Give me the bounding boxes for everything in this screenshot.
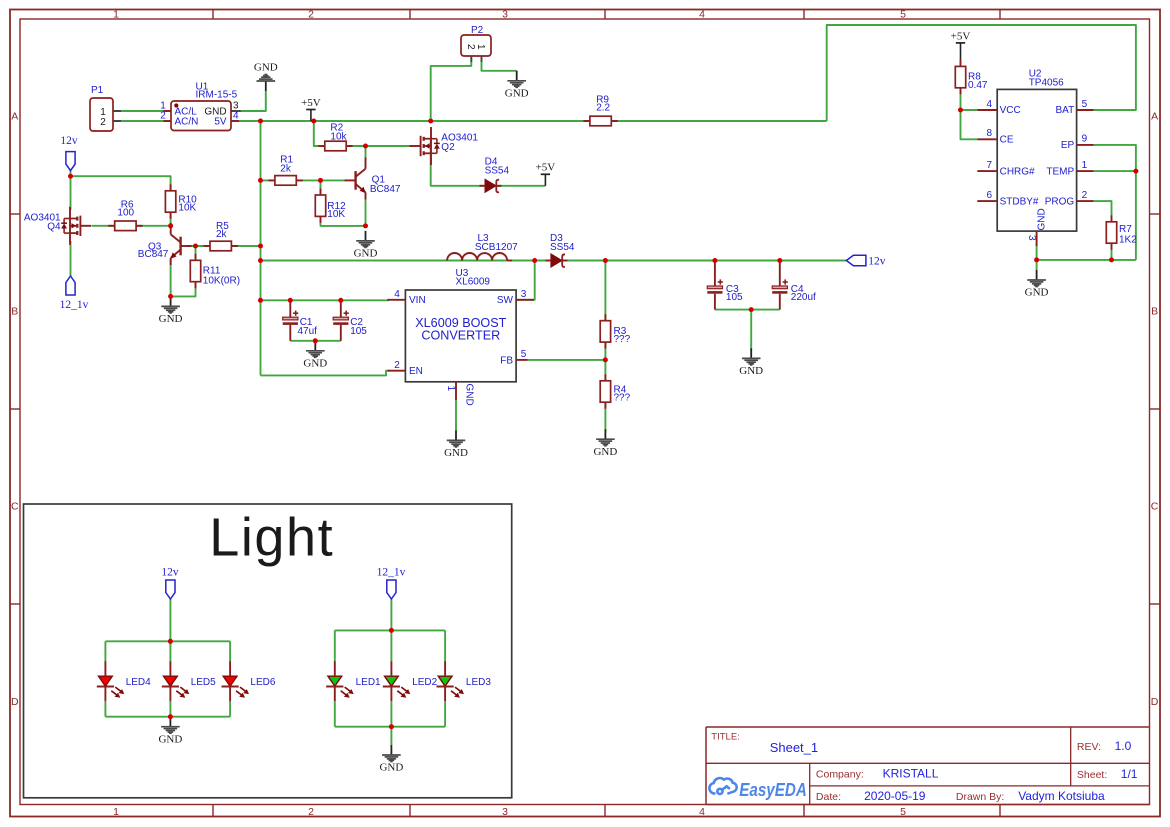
svg-text:1: 1 [1082, 160, 1088, 171]
svg-text:10K: 10K [178, 203, 196, 214]
svg-text:TP4056: TP4056 [1029, 78, 1064, 89]
svg-text:P2: P2 [471, 25, 484, 36]
svg-text:EN: EN [409, 366, 423, 377]
svg-text:Q4: Q4 [47, 222, 61, 233]
svg-text:???: ??? [614, 334, 631, 345]
svg-text:5V: 5V [214, 117, 227, 128]
svg-text:2: 2 [308, 8, 314, 20]
svg-text:GND: GND [254, 62, 278, 74]
svg-text:1: 1 [113, 8, 119, 20]
svg-text:???: ??? [614, 393, 631, 404]
svg-text:GND: GND [444, 447, 468, 459]
svg-text:GND: GND [354, 248, 378, 260]
svg-text:Drawn By:: Drawn By: [956, 791, 1004, 803]
svg-text:Vadym Kotsiuba: Vadym Kotsiuba [1018, 789, 1105, 803]
svg-text:105: 105 [350, 326, 367, 337]
svg-text:AC/N: AC/N [175, 117, 199, 128]
svg-text:4: 4 [699, 806, 705, 818]
svg-text:8: 8 [986, 128, 992, 139]
svg-text:0.47: 0.47 [968, 80, 988, 91]
svg-text:Q2: Q2 [441, 142, 455, 153]
svg-text:GND: GND [1025, 287, 1049, 299]
svg-text:2k: 2k [280, 163, 292, 174]
svg-text:EasyEDA: EasyEDA [739, 779, 807, 800]
svg-text:5: 5 [900, 806, 906, 818]
svg-text:9: 9 [1082, 134, 1088, 145]
svg-text:LED4: LED4 [126, 677, 151, 688]
svg-text:REV:: REV: [1077, 741, 1101, 753]
svg-text:D: D [11, 696, 19, 708]
svg-text:B: B [1151, 306, 1158, 318]
svg-text:5: 5 [521, 349, 527, 360]
svg-text:GND: GND [505, 88, 529, 100]
svg-text:+5V: +5V [536, 162, 556, 174]
svg-text:2: 2 [465, 44, 476, 50]
svg-text:FB: FB [500, 355, 513, 366]
svg-text:5: 5 [900, 8, 906, 20]
svg-text:A: A [1151, 111, 1158, 123]
svg-text:2: 2 [100, 117, 106, 128]
svg-text:GND: GND [463, 384, 474, 406]
svg-text:1.0: 1.0 [1115, 739, 1132, 753]
svg-text:2.2: 2.2 [596, 103, 610, 114]
svg-text:TEMP: TEMP [1046, 166, 1074, 177]
svg-text:6: 6 [986, 190, 992, 201]
svg-text:7: 7 [986, 160, 992, 171]
svg-text:4: 4 [394, 289, 400, 300]
svg-text:BC847: BC847 [370, 184, 401, 195]
svg-text:Sheet_1: Sheet_1 [770, 740, 818, 755]
svg-text:1: 1 [475, 44, 486, 50]
svg-text:4: 4 [233, 111, 239, 122]
svg-text:10K: 10K [327, 209, 345, 220]
svg-text:LED3: LED3 [466, 677, 491, 688]
svg-text:SS54: SS54 [485, 166, 510, 177]
svg-text:A: A [11, 111, 18, 123]
svg-text:BC847: BC847 [138, 249, 169, 260]
svg-text:2: 2 [160, 111, 166, 122]
svg-text:P1: P1 [91, 85, 104, 96]
svg-text:4: 4 [986, 99, 992, 110]
svg-text:SCB1207: SCB1207 [475, 242, 518, 253]
svg-text:EP: EP [1061, 140, 1075, 151]
svg-text:3: 3 [502, 806, 508, 818]
svg-text:12v: 12v [868, 255, 886, 267]
svg-text:GND: GND [593, 446, 617, 458]
svg-text:12v: 12v [60, 135, 78, 147]
svg-text:2: 2 [394, 360, 400, 371]
svg-text:47uf: 47uf [298, 326, 318, 337]
svg-text:2020-05-19: 2020-05-19 [864, 789, 926, 803]
svg-text:STDBY#: STDBY# [1000, 196, 1039, 207]
svg-text:GND: GND [303, 358, 327, 370]
svg-text:Date:: Date: [816, 791, 841, 803]
svg-text:1/1: 1/1 [1121, 767, 1138, 781]
svg-text:12_1v: 12_1v [377, 566, 406, 578]
svg-text:CHRG#: CHRG# [1000, 166, 1035, 177]
svg-text:Sheet:: Sheet: [1077, 769, 1107, 781]
svg-text:12v: 12v [161, 566, 179, 578]
svg-text:VCC: VCC [1000, 105, 1021, 116]
svg-text:CONVERTER: CONVERTER [421, 329, 500, 343]
svg-text:D: D [1151, 696, 1159, 708]
svg-text:1: 1 [445, 386, 456, 392]
svg-text:2: 2 [1082, 190, 1088, 201]
svg-text:12_1v: 12_1v [60, 299, 89, 311]
svg-text:Light: Light [209, 508, 334, 568]
svg-text:GND: GND [159, 313, 183, 325]
svg-text:XL6009: XL6009 [456, 277, 491, 288]
svg-text:GND: GND [158, 733, 182, 745]
svg-text:LED1: LED1 [356, 677, 381, 688]
svg-text:3: 3 [502, 8, 508, 20]
svg-text:C: C [11, 501, 19, 513]
svg-text:105: 105 [726, 292, 743, 303]
svg-text:GND: GND [379, 762, 403, 774]
svg-text:PROG: PROG [1045, 196, 1075, 207]
svg-text:5: 5 [1082, 99, 1088, 110]
svg-text:10K(0R): 10K(0R) [203, 276, 240, 287]
svg-text:+5V: +5V [951, 30, 971, 42]
svg-text:LED5: LED5 [191, 677, 216, 688]
svg-text:100: 100 [117, 207, 134, 218]
svg-text:LED2: LED2 [412, 677, 437, 688]
svg-text:220uf: 220uf [791, 292, 816, 303]
svg-text:VIN: VIN [409, 295, 426, 306]
svg-text:GND: GND [739, 365, 763, 377]
svg-text:B: B [11, 306, 18, 318]
svg-text:SW: SW [497, 295, 514, 306]
svg-text:1K2: 1K2 [1119, 234, 1137, 245]
svg-text:IRM-15-5: IRM-15-5 [196, 90, 238, 101]
svg-text:10k: 10k [330, 132, 347, 143]
svg-text:GND: GND [1037, 208, 1048, 230]
svg-text:LED6: LED6 [250, 677, 275, 688]
svg-text:BAT: BAT [1055, 105, 1074, 116]
svg-text:4: 4 [699, 8, 705, 20]
svg-text:C: C [1151, 501, 1159, 513]
svg-text:3: 3 [521, 289, 527, 300]
svg-text:Company:: Company: [816, 769, 864, 781]
svg-text:+5V: +5V [301, 97, 321, 109]
svg-text:KRISTALL: KRISTALL [883, 767, 939, 781]
svg-text:2k: 2k [216, 229, 228, 240]
svg-text:2: 2 [308, 806, 314, 818]
svg-text:CE: CE [1000, 135, 1014, 146]
svg-text:SS54: SS54 [550, 242, 575, 253]
svg-text:TITLE:: TITLE: [711, 731, 740, 742]
svg-text:1: 1 [113, 806, 119, 818]
svg-text:3: 3 [1026, 235, 1037, 241]
